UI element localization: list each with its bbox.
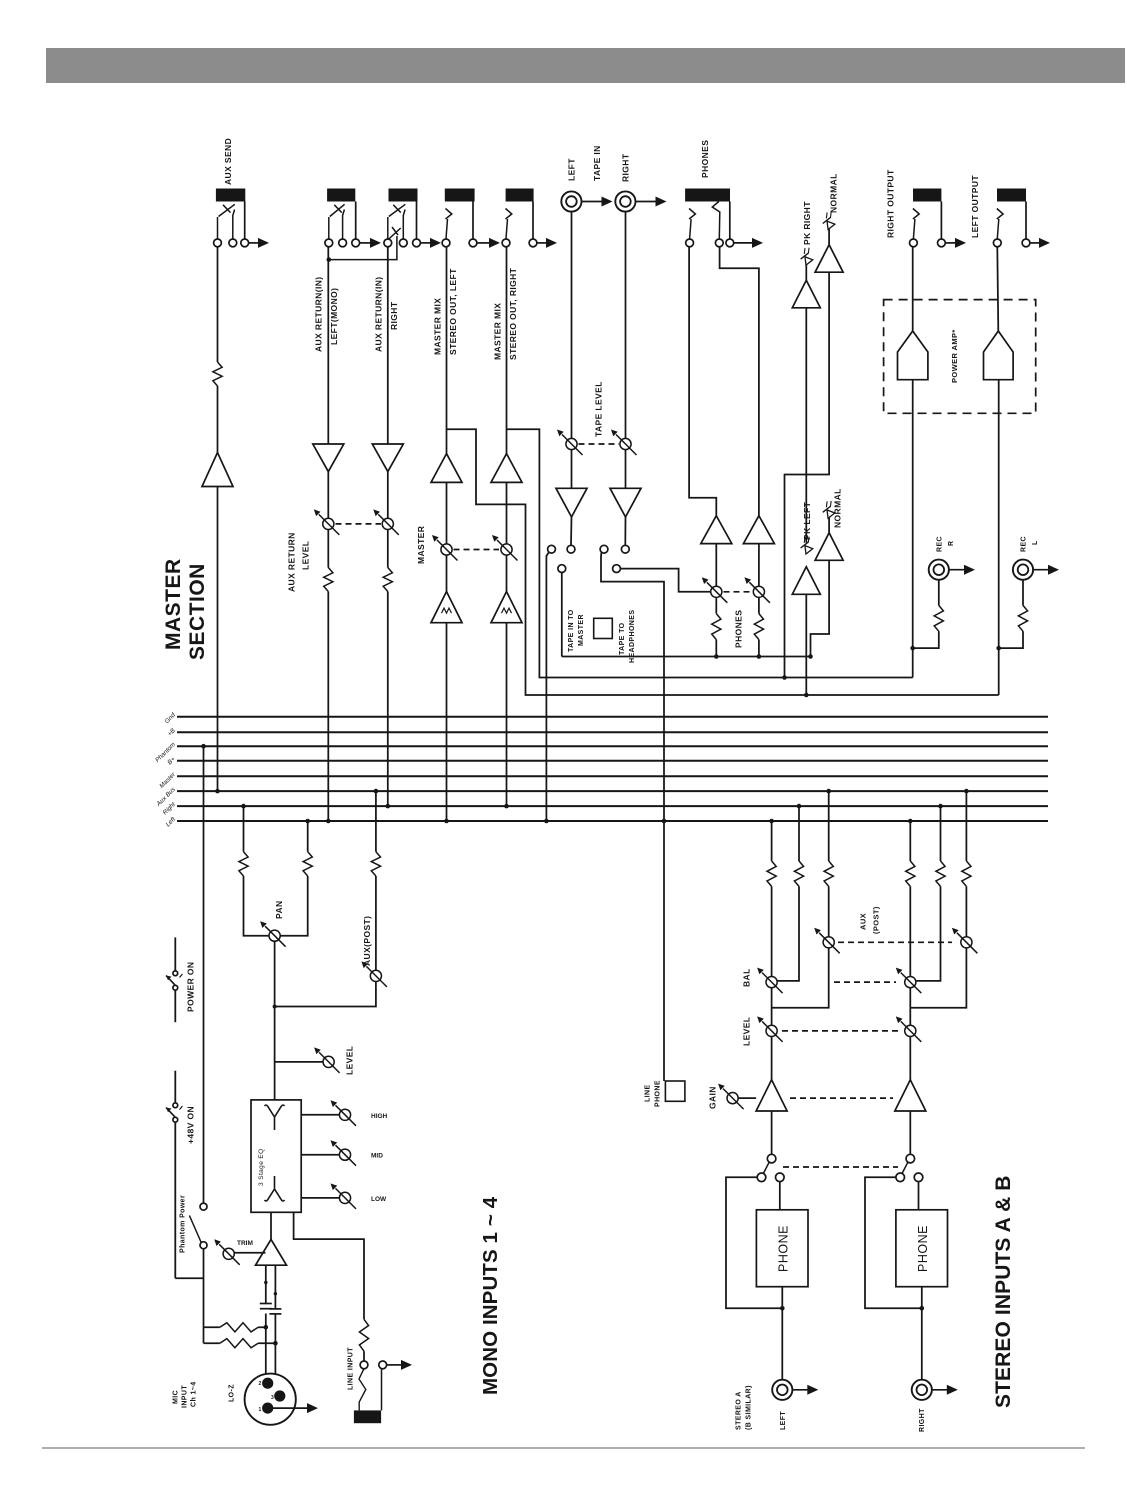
wire right output column <box>912 380 914 678</box>
wire tape R throw2 to phones pots <box>620 569 710 592</box>
pot GAIN stereo A <box>727 1093 738 1104</box>
wire pk right feed <box>805 308 807 543</box>
wire phones L pot to resistor <box>715 597 717 613</box>
svg-text:RIGHT: RIGHT <box>919 1408 926 1432</box>
gang dashes stereo aux <box>838 941 952 943</box>
amp phones L <box>701 516 732 544</box>
svg-text:AUX(POST): AUX(POST) <box>362 916 372 966</box>
jack PHONES <box>685 189 730 202</box>
wire normal top amp to led <box>828 229 830 245</box>
junction stereo B left bus <box>908 819 913 824</box>
wire left power amp to jack <box>997 247 998 331</box>
gang dashes stereo gain <box>790 1097 893 1099</box>
gang dashes aux return pots <box>336 523 382 525</box>
jack RIGHT OUTPUT <box>913 189 941 202</box>
wire master L jack to amp <box>446 247 448 454</box>
wire tape R amp to switch <box>624 517 626 545</box>
svg-text:TAPE LEVEL: TAPE LEVEL <box>594 381 604 437</box>
wire pk left amp to left feed <box>805 594 807 695</box>
junction stereo A right bus <box>797 804 802 809</box>
amp phones R <box>743 516 774 544</box>
svg-text:3: 3 <box>271 1395 274 1401</box>
svg-text:LINE: LINE <box>645 1084 652 1102</box>
resistor phones L <box>712 614 721 640</box>
switch contact tape L throw1 <box>548 545 556 553</box>
junction stereo B bypass <box>920 1306 925 1311</box>
wire master R tap to power amp feed <box>507 429 913 677</box>
pot PAN <box>269 930 280 941</box>
wire mic hot to amp <box>265 1265 267 1303</box>
led PK RIGHT <box>797 246 816 265</box>
wire normal top feed <box>785 272 830 677</box>
switch stereo A pole <box>767 1154 776 1163</box>
gang dashes stereo bal <box>834 981 896 983</box>
gang dashes stereo level <box>782 1030 898 1032</box>
resistor pan L <box>239 852 248 876</box>
junction aux post tee <box>273 1005 277 1009</box>
svg-text:GAIN: GAIN <box>708 1086 718 1109</box>
svg-text:(POST): (POST) <box>872 906 881 934</box>
wire phones R pot to amp <box>758 544 760 587</box>
junction stereo A bypass <box>780 1306 785 1311</box>
switch contact line jack1 <box>360 1361 368 1369</box>
wire stereo A right col from bus <box>798 806 800 861</box>
amp aux return R <box>372 444 403 472</box>
switch phantom upper contact <box>200 1203 207 1210</box>
resistor aux send <box>213 362 222 386</box>
svg-text:AUX RETURN(IN): AUX RETURN(IN) <box>374 277 384 352</box>
bus line Aux Bus <box>177 790 1048 792</box>
wire rec L rca to resistor <box>1022 579 1024 605</box>
gang dashes phones pots <box>724 591 753 593</box>
wire gain A stub <box>738 1097 756 1099</box>
svg-text:2: 2 <box>259 1381 262 1387</box>
switch stereo B pole <box>906 1154 915 1163</box>
wire eq stub HIGH <box>301 1114 339 1116</box>
wire eq stub MID <box>301 1154 339 1156</box>
switch stereo A throw R <box>776 1173 785 1182</box>
svg-text:RIGHT OUTPUT: RIGHT OUTPUT <box>886 169 896 238</box>
junction aux return R / right bus <box>386 804 391 809</box>
svg-text:PHONE: PHONE <box>916 1225 930 1272</box>
wire pan L resistor to pot <box>244 876 270 936</box>
wire aux return R jack to amp <box>387 247 389 444</box>
eq glyph bottom <box>265 1176 285 1201</box>
pot PHONES R <box>753 586 764 597</box>
wire stereo B aux col from bus <box>965 791 967 861</box>
svg-text:MID: MID <box>371 1153 383 1160</box>
wire pan resistor L from right bus <box>243 806 245 852</box>
wire aux send jack to resistor <box>217 247 219 362</box>
jack AUX RETURN LEFT <box>327 189 355 202</box>
bus line Gnd <box>177 716 1048 718</box>
junction tapeR / left bus2 <box>662 819 667 824</box>
resistor pan R <box>303 852 312 876</box>
power amp right <box>898 331 928 380</box>
gang dashes stereo switch <box>783 1166 898 1168</box>
wire stereo A bal to level <box>771 988 773 1026</box>
wire line-phone column to box <box>663 821 665 1081</box>
svg-text:STEREO OUT, RIGHT: STEREO OUT, RIGHT <box>508 267 518 360</box>
junction master L / left bus <box>444 819 449 824</box>
junction aux post bus <box>374 789 379 794</box>
junction pan L bus <box>241 804 246 809</box>
svg-text:RIGHT: RIGHT <box>621 153 631 182</box>
wire tape L throw1 to left bus <box>546 552 549 821</box>
pot PHONES L <box>711 586 722 597</box>
junction phones L <box>714 654 719 659</box>
amp master L <box>431 454 462 483</box>
resistor REC L <box>1018 605 1027 631</box>
wire aux send amp to aux bus <box>217 487 219 792</box>
wire stereo B bypass <box>865 1177 922 1308</box>
svg-text:Left: Left <box>165 816 178 829</box>
amp master R <box>491 454 522 483</box>
wire tape R throw1 to line-phone column <box>601 552 664 821</box>
wire tape L pot to amp <box>571 450 573 489</box>
svg-text:AUX SEND: AUX SEND <box>223 138 233 185</box>
svg-text:LEFT(MONO): LEFT(MONO) <box>329 288 339 345</box>
pot MID <box>339 1149 350 1160</box>
wire phones R resistor to line <box>758 640 760 657</box>
amp tape R <box>610 488 641 517</box>
resistor line input <box>359 1319 368 1351</box>
svg-text:LINE INPUT: LINE INPUT <box>348 1347 355 1390</box>
jack LINE INPUT body <box>354 1410 381 1423</box>
svg-text:MIC: MIC <box>173 1390 180 1404</box>
wire aux send resistor to amp <box>217 386 219 453</box>
pot TAPE LEVEL R <box>620 438 631 449</box>
wire r1 to mic hot <box>258 1326 266 1328</box>
switch phantom lower contact <box>200 1242 207 1249</box>
wire stereo A level to amp <box>771 1037 773 1080</box>
svg-text:LOW: LOW <box>371 1196 387 1203</box>
junction mic pair marks <box>264 1281 267 1284</box>
svg-text:PK RIGHT: PK RIGHT <box>802 201 812 245</box>
bus line B+ <box>177 760 1048 762</box>
wire line input feed <box>294 1212 364 1319</box>
led NORMAL bottom <box>819 499 838 518</box>
wire channel line pan to eq <box>274 941 276 1100</box>
amp mic input <box>256 1239 287 1265</box>
resistor phantom feed 1 <box>220 1323 258 1332</box>
wire master R sum amp to right bus <box>506 623 508 806</box>
junction rec L <box>996 646 1001 651</box>
wire phantom line down <box>203 746 205 1203</box>
junction stereo B aux bus <box>964 789 969 794</box>
switch phantom blade <box>189 1216 201 1243</box>
wire tape L rca to pot <box>571 212 573 439</box>
wire rec R resistor to right column <box>913 631 939 648</box>
wire tape L amp to switch <box>570 517 573 545</box>
amp PK LEFT <box>792 567 820 595</box>
jack LEFT OUTPUT <box>997 189 1026 202</box>
amp aux send <box>202 453 233 487</box>
svg-text:SECTION: SECTION <box>186 563 209 660</box>
wire level tee <box>275 1061 323 1063</box>
svg-text:3 Stage EQ: 3 Stage EQ <box>258 1148 265 1186</box>
wire stereo B right col to bal pot <box>916 886 940 981</box>
wire bracket to r2 <box>204 1342 220 1344</box>
arrow line input <box>387 1364 403 1366</box>
wire tape R rca to pot <box>625 212 627 439</box>
bus line Right <box>177 805 1048 807</box>
wire 48v rail to phantom bracket <box>175 1277 203 1279</box>
wire master R jack to amp <box>506 247 508 454</box>
wire rec L resistor to left column <box>999 631 1023 648</box>
wire stereo B right col from bus <box>940 806 942 861</box>
wire r2 to mic cold <box>258 1342 275 1344</box>
wire aux return L pot to resistor <box>327 530 329 568</box>
wire right power amp to jack <box>912 247 914 331</box>
rca stereo A <box>772 1380 792 1400</box>
amp NORMAL bottom <box>815 533 843 561</box>
resistor phones R <box>754 614 763 640</box>
wire stereo A amp to switch <box>771 1111 773 1154</box>
resistor stereo B right <box>936 861 945 886</box>
wire trim to amp <box>234 1252 265 1254</box>
wire stereo B level to amp <box>909 1037 911 1080</box>
wire stereo B throw to box <box>918 1182 920 1210</box>
amp GAIN stereo B <box>895 1080 926 1111</box>
switch stereo A blade <box>764 1162 770 1173</box>
switch box TAPE IN TO MASTER / TAPE TO HEADPHONES <box>594 618 613 638</box>
svg-text:NORMAL: NORMAL <box>833 488 843 528</box>
jack LINE INPUT contact <box>359 1369 366 1411</box>
pot MASTER L <box>441 544 452 555</box>
junction aux send / aux bus <box>215 789 220 794</box>
ground arrow mic <box>273 1407 308 1409</box>
junction stereo A left bus <box>769 819 774 824</box>
amp NORMAL top <box>815 245 843 273</box>
resistor stereo A aux <box>824 861 833 886</box>
pot LEVEL mono <box>323 1056 334 1067</box>
svg-text:Phantom Power: Phantom Power <box>180 1195 187 1253</box>
bus line Left <box>177 820 1048 822</box>
svg-text:Gnd: Gnd <box>164 711 178 725</box>
junction phantom bus <box>201 744 206 749</box>
resistor stereo A right <box>794 861 803 886</box>
dashed box POWER AMP <box>884 300 1036 414</box>
svg-text:MASTER: MASTER <box>578 614 585 646</box>
junction phones R <box>757 654 762 659</box>
wire aux return L jack to amp <box>327 247 329 444</box>
svg-text:POWER ON: POWER ON <box>186 962 196 1012</box>
amp GAIN stereo A <box>756 1080 787 1111</box>
svg-text:B+: B+ <box>166 756 177 767</box>
switch POWER ON <box>174 937 176 970</box>
bus line Phantom <box>177 745 1048 747</box>
svg-text:PAN: PAN <box>274 900 284 919</box>
wire master L amp to pot <box>446 482 448 544</box>
wire mic cold to amp <box>274 1265 276 1309</box>
svg-text:MASTER: MASTER <box>162 558 185 650</box>
wire stereo B left col from bus <box>909 821 911 861</box>
rca stereo B <box>912 1380 932 1400</box>
box 3 Stage EQ <box>251 1100 301 1212</box>
wire stereo A aux col to pot <box>828 886 830 936</box>
junction tapeL / left bus <box>544 819 549 824</box>
jack AUX SEND output <box>216 189 245 202</box>
pot BAL stereo B <box>905 977 916 988</box>
pot LEVEL stereo B <box>905 1025 916 1036</box>
svg-text:LEVEL: LEVEL <box>345 1046 355 1075</box>
svg-text:PK LEFT: PK LEFT <box>802 501 812 540</box>
switch contact line jack2 <box>379 1361 387 1369</box>
svg-text:Ch 1~4: Ch 1~4 <box>191 1381 198 1407</box>
svg-text:AUX RETURN(IN): AUX RETURN(IN) <box>314 277 324 352</box>
svg-text:PHONES: PHONES <box>700 140 710 178</box>
wire aux return R amp to pot <box>387 472 389 519</box>
wire tape R pot to amp <box>625 450 627 489</box>
svg-text:TAPE IN: TAPE IN <box>592 145 602 181</box>
svg-text:STEREO OUT, LEFT: STEREO OUT, LEFT <box>448 268 458 355</box>
switch contact tape R throw1 <box>600 545 608 553</box>
switch contact tape L pole <box>567 545 575 553</box>
resistor stereo B left <box>906 861 915 886</box>
resistor phantom feed 2 <box>220 1339 258 1348</box>
svg-text:REC: REC <box>1021 536 1028 552</box>
svg-text:LEFT OUTPUT: LEFT OUTPUT <box>970 175 980 238</box>
svg-text:MASTER MIX: MASTER MIX <box>493 303 503 360</box>
jack MASTER OUT LEFT <box>445 189 475 202</box>
box PHONE A <box>756 1210 808 1287</box>
svg-text:TRIM: TRIM <box>237 1240 253 1247</box>
wire phantom switch to resistor bracket <box>203 1249 205 1344</box>
pot LEVEL stereo A <box>766 1025 777 1036</box>
svg-text:+B: +B <box>166 727 177 738</box>
wire line input resistor to jack <box>363 1351 365 1361</box>
svg-text:LEFT: LEFT <box>780 1411 787 1430</box>
header gray bar <box>46 48 1126 83</box>
wire stereo A aux pot to channel <box>772 948 829 1008</box>
wire aux return R resistor to right bus <box>387 592 389 807</box>
svg-text:L: L <box>1032 540 1039 545</box>
wire stereo B box to rca <box>921 1287 923 1381</box>
summing amp master R <box>491 592 522 623</box>
switch +48V ON <box>174 1071 176 1103</box>
svg-text:PHONE: PHONE <box>655 1080 662 1107</box>
wire stereo A aux col from bus <box>828 791 830 861</box>
switch contact tape L throw2 <box>558 565 566 573</box>
svg-text:LEVEL: LEVEL <box>301 541 311 570</box>
svg-text:AUX RETURN: AUX RETURN <box>287 532 297 592</box>
pot AUX RETURN LEVEL R <box>382 518 393 529</box>
rca REC R <box>929 560 949 580</box>
svg-text:(B SIMILAR): (B SIMILAR) <box>746 1385 753 1430</box>
switch contact tape R pole <box>621 545 629 553</box>
pot TAPE LEVEL L <box>566 438 577 449</box>
pot AUX RETURN LEVEL L <box>323 518 334 529</box>
wire aux post resistor to pot <box>375 876 377 970</box>
eq glyph top <box>265 1105 285 1130</box>
wire stereo A box to rca <box>781 1287 783 1381</box>
svg-text:INPUT: INPUT <box>182 1385 189 1408</box>
svg-text:PHONES: PHONES <box>734 610 744 648</box>
svg-text:NORMAL: NORMAL <box>829 173 839 213</box>
bus line Master <box>177 775 1048 777</box>
junction r1 mic hot <box>264 1325 269 1330</box>
junction normal top / right feed <box>782 675 787 680</box>
svg-text:1: 1 <box>259 1407 262 1413</box>
pot AUX POST stereo A <box>823 937 834 948</box>
wire aux return L amp to pot <box>327 472 329 519</box>
wire mic amp to eq box <box>270 1212 272 1239</box>
pot AUX POST stereo B <box>961 937 972 948</box>
wire stereo B aux pot to channel <box>910 948 966 1008</box>
svg-text:AUX: AUX <box>859 913 868 930</box>
switch stereo A throw L <box>757 1173 766 1182</box>
junction pan R bus <box>305 819 310 824</box>
pot TRIM <box>223 1248 234 1259</box>
switch stereo B throw L <box>896 1173 905 1182</box>
wire phones R pot to resistor <box>758 597 760 613</box>
pot AUX(POST) <box>370 970 381 981</box>
wire rec R rca to resistor <box>938 579 940 605</box>
wire master L tap to power amp feed <box>447 429 999 695</box>
svg-text:Master: Master <box>158 771 177 790</box>
rca TAPE IN RIGHT <box>615 191 635 211</box>
wire phones R amp to jack <box>720 247 759 516</box>
wire stereo A bypass <box>726 1177 782 1308</box>
wire aux return R pot to resistor <box>387 530 389 568</box>
wire normalling aux return <box>329 236 397 260</box>
led PK LEFT <box>797 535 816 554</box>
wire master L pot to sum amp <box>446 555 448 591</box>
xlr MIC INPUT <box>245 1374 296 1425</box>
wire phones L amp to jack <box>689 247 716 516</box>
switch contact tape R throw2 <box>613 565 621 573</box>
wire stereo B left col to bal pot <box>909 886 911 976</box>
amp aux return L <box>313 444 344 472</box>
wire aux post resistor from aux bus <box>375 791 377 852</box>
wire mic hot line <box>265 1314 267 1382</box>
svg-text:LO-Z: LO-Z <box>229 1384 236 1402</box>
wire master L sum amp to left bus <box>446 623 448 821</box>
pot HIGH <box>339 1109 350 1120</box>
wire master R pot to sum amp <box>506 555 508 591</box>
pot LOW <box>339 1192 350 1203</box>
gang dashes master pots <box>454 549 500 551</box>
svg-text:TAPE IN TO: TAPE IN TO <box>568 609 575 652</box>
wire pan resistor R from left bus <box>307 821 309 852</box>
resistor aux return R <box>383 568 392 592</box>
junction stereo B right bus <box>938 804 943 809</box>
wire eq stub LOW <box>301 1197 339 1199</box>
svg-text:RIGHT: RIGHT <box>389 301 399 330</box>
wire stereo A left col to bal pot <box>771 886 773 976</box>
svg-text:POWER AMP*: POWER AMP* <box>950 329 959 383</box>
rca TAPE IN LEFT <box>561 191 581 211</box>
svg-text:BAL: BAL <box>742 968 752 987</box>
wire bracket to r1 <box>204 1326 220 1328</box>
power amp left <box>984 331 1014 380</box>
wire normal bottom amp to led <box>828 518 830 533</box>
box LINE/PHONE <box>665 1081 685 1101</box>
switch stereo B throw R <box>914 1173 923 1182</box>
junction r2 mic cold <box>273 1341 278 1346</box>
svg-text:STEREO INPUTS A & B: STEREO INPUTS A & B <box>992 1175 1015 1408</box>
wire pk right amp to led <box>805 264 807 280</box>
junction normal bottom / headphone line <box>808 654 813 659</box>
svg-text:HEADPHONES: HEADPHONES <box>629 610 636 663</box>
wire mic cold line <box>274 1314 276 1394</box>
svg-text:MONO INPUTS 1 ~ 4: MONO INPUTS 1 ~ 4 <box>479 1196 502 1395</box>
junction master R / right bus <box>504 804 509 809</box>
wire phones L resistor to line <box>715 640 717 657</box>
resistor stereo B aux <box>962 861 971 886</box>
wire stereo B bal to level <box>909 988 911 1026</box>
